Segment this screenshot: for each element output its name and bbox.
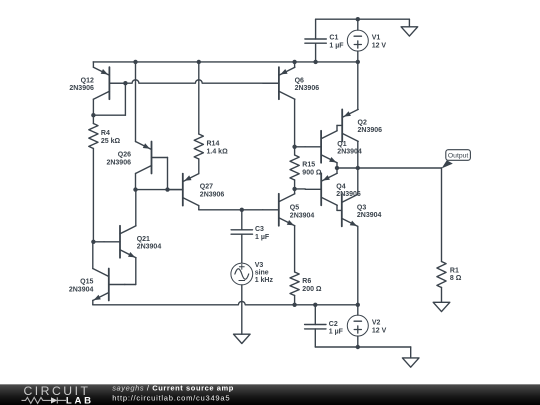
svg-text:http://circuitlab.com/cu349a5: http://circuitlab.com/cu349a5 [112, 393, 229, 402]
svg-text:LAB: LAB [66, 395, 91, 405]
svg-text:sayeghs / Current source amp: sayeghs / Current source amp [112, 384, 234, 393]
